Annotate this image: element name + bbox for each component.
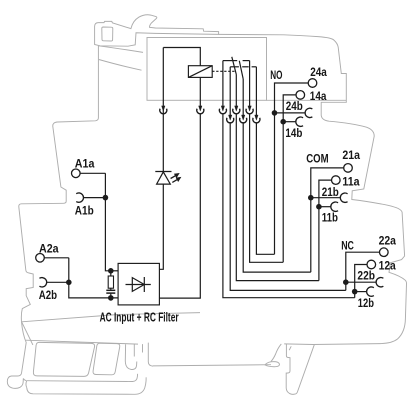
housing bottom edge line: [22, 313, 200, 322]
wire A2b to junction: [47, 281, 69, 283]
contact 12b: [367, 287, 374, 296]
relay coil K1: [188, 66, 212, 78]
rectifier box U1: [118, 263, 159, 305]
svg-text:22a: 22a: [379, 234, 396, 248]
wire net11 riser: [319, 180, 331, 281]
din rail slot A: [33, 342, 94, 376]
rail end spoon: [265, 362, 279, 367]
svg-text:22b: 22b: [357, 268, 375, 282]
wire 22b branch: [346, 281, 376, 283]
node 24 junction: [272, 110, 278, 116]
node A1 junction: [103, 195, 109, 201]
node 11 junction: [316, 204, 322, 210]
svg-text:14b: 14b: [285, 126, 302, 140]
wire net22 riser: [346, 252, 379, 290]
housing top release clip: [95, 15, 219, 46]
contact A1b: [76, 193, 83, 202]
svg-text:21b: 21b: [322, 185, 339, 199]
relay/socket separation line: [267, 99, 347, 101]
wire 11b branch: [319, 206, 331, 208]
svg-text:NC: NC: [341, 239, 354, 253]
node 14 junction: [280, 119, 286, 125]
plug contact coil left: [162, 106, 165, 111]
din-rail latch spring: [271, 344, 281, 362]
foot right body edge: [295, 345, 314, 394]
node rectifier input top: [108, 268, 114, 274]
wire W5 net14 upper: [249, 61, 251, 106]
terminal circle A2a: [36, 253, 45, 262]
node 21 junction: [308, 195, 314, 201]
contact 14b: [296, 117, 303, 126]
contact rail 2: [230, 66, 239, 68]
contact rail 1: [223, 60, 237, 62]
svg-text:AC Input + RC Filter: AC Input + RC Filter: [100, 310, 179, 324]
foot top edge: [26, 340, 138, 344]
wire 24b branch: [275, 112, 306, 114]
svg-text:12a: 12a: [379, 259, 396, 273]
clip inner hole: [102, 27, 113, 41]
contact A2b: [39, 278, 46, 287]
wire W5 net14 loop: [250, 113, 284, 262]
wire 21b branch: [311, 197, 341, 199]
svg-text:A1a: A1a: [75, 157, 95, 171]
wire W2 net22 loop: [230, 123, 346, 291]
contact lever pole 2: [239, 61, 243, 79]
housing outline left side: [19, 46, 99, 322]
contact lever pole 1: [232, 57, 237, 75]
wire net24 riser: [275, 83, 309, 254]
svg-text:COM: COM: [306, 152, 328, 166]
contact 21b: [340, 193, 347, 202]
wire A1a to junction: [80, 172, 105, 174]
svg-text:11a: 11a: [342, 175, 359, 189]
housing-foot diagonal edge: [22, 322, 33, 345]
wire rectifier out to LED: [159, 184, 163, 269]
wire rectifier input top: [111, 270, 118, 272]
wire W2 net22 upper: [229, 67, 231, 115]
terminal circle 14a: [296, 91, 305, 100]
svg-text:A1b: A1b: [75, 203, 94, 217]
foot center clip: [125, 344, 137, 369]
wire W1 net12 loop: [223, 113, 355, 297]
node rectifier input bottom: [108, 295, 114, 301]
wire W3 net11 upper: [235, 75, 237, 106]
plug contact coil right: [199, 106, 202, 111]
foot left profile and hook: [7, 322, 26, 389]
wire 12b branch: [355, 291, 367, 293]
wire net14 riser: [283, 95, 296, 262]
wire W3 net11 loop: [236, 113, 319, 280]
node A2 junction: [66, 280, 72, 286]
wire net21 riser: [311, 168, 344, 272]
contact 22b: [376, 278, 383, 287]
plug contact W6: [255, 115, 258, 120]
wire 14b branch: [283, 121, 296, 123]
wire LED up to plug: [162, 106, 164, 172]
svg-text:24a: 24a: [310, 65, 327, 79]
plug contact W2: [229, 115, 232, 120]
terminal circle 21a: [344, 164, 353, 173]
terminal circle 24a: [308, 79, 317, 88]
node 22 junction: [343, 279, 349, 285]
svg-text:A2a: A2a: [39, 241, 59, 255]
wire W1 net12 upper: [222, 61, 224, 106]
plug contact W4: [242, 115, 245, 120]
wire coil return down: [159, 113, 200, 298]
housing top curves under clip: [99, 46, 143, 53]
svg-text:24b: 24b: [286, 99, 303, 113]
LED D2: [155, 171, 171, 173]
wire A2a to junction: [44, 257, 69, 259]
svg-text:21a: 21a: [342, 148, 360, 162]
node 12 junction: [352, 289, 358, 295]
actuator dashed link: [212, 70, 236, 72]
wire coil left riser: [162, 48, 164, 106]
wire W4 net21 loop: [243, 123, 311, 273]
wire W6 net24 loop: [256, 123, 274, 255]
terminal circle 12a: [367, 260, 376, 269]
LED light arrows: [171, 176, 176, 179]
relay body outline (gray rect): [147, 38, 267, 101]
wire W4 net21 upper: [242, 79, 244, 115]
wire coil bottom to plug: [199, 77, 201, 106]
plug contact W5: [248, 106, 251, 111]
diode D1 inside rectifier: [126, 284, 151, 286]
terminal circle A1a: [72, 169, 81, 178]
svg-text:12b: 12b: [358, 296, 375, 310]
din rail slot B: [93, 343, 120, 375]
wire net12 riser: [355, 265, 367, 298]
contact 24b: [305, 108, 312, 117]
contact 11b: [331, 202, 338, 211]
din rail web line: [153, 365, 271, 366]
wire A2 vertical+bottom: [69, 258, 118, 298]
svg-text:11b: 11b: [322, 210, 339, 224]
resistor R1: [110, 273, 112, 276]
capacitor C1: [110, 288, 112, 289]
terminal circle 22a: [380, 248, 389, 257]
terminal circle 11a: [332, 176, 341, 185]
wire W6 net24 upper: [255, 67, 257, 115]
din-rail latch body: [286, 344, 295, 394]
plug contact W1: [221, 106, 224, 111]
housing outline top right: [219, 34, 407, 344]
wire coil top loop: [163, 48, 200, 66]
plug contact W3: [235, 106, 238, 111]
svg-text:14a: 14a: [310, 89, 327, 103]
wire A1b to junction: [83, 197, 105, 199]
rail bottom flange: [27, 374, 138, 382]
svg-text:A2b: A2b: [39, 288, 58, 302]
svg-text:NO: NO: [270, 68, 282, 82]
wire A1 vertical: [105, 173, 110, 270]
